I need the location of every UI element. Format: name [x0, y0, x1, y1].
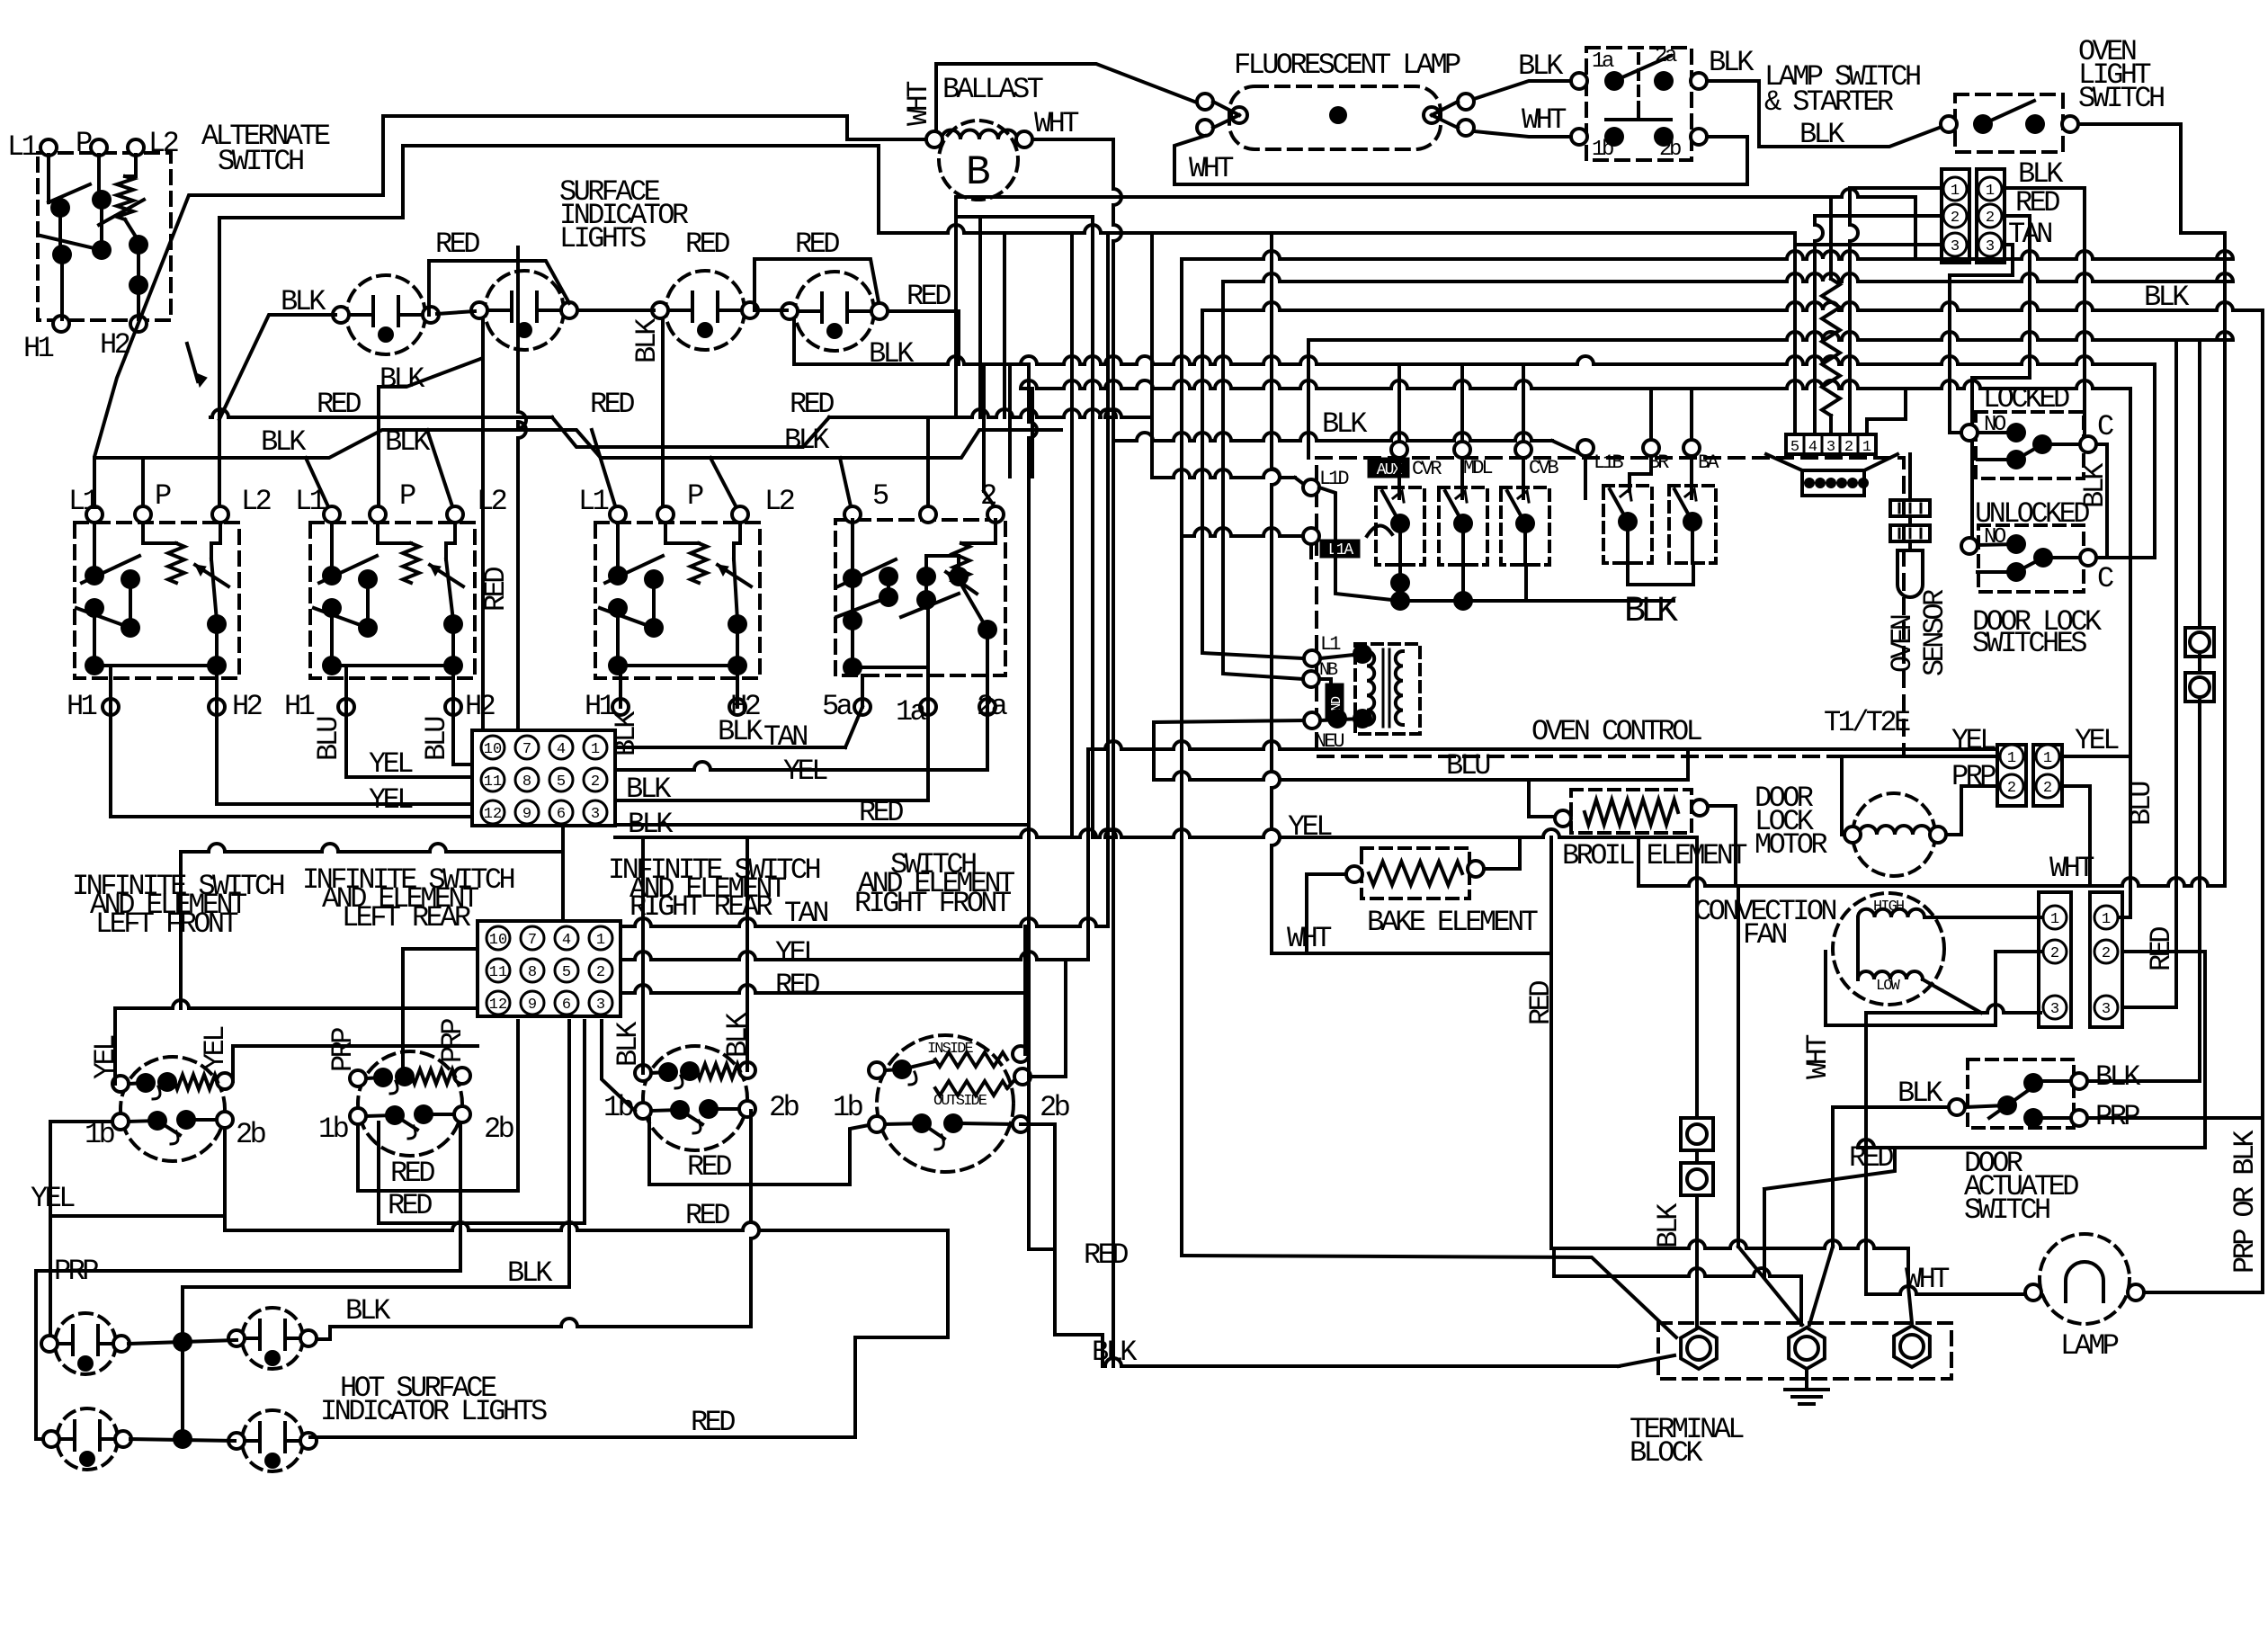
wire WHT to lamp: [1866, 1286, 2025, 1294]
svg-text:RED: RED: [317, 388, 361, 421]
svg-text:RED: RED: [390, 1157, 434, 1190]
svg-text:4: 4: [557, 741, 566, 758]
wire lamp right bottom WHT: [1474, 131, 1571, 137]
svg-text:RED: RED: [790, 388, 834, 421]
svg-text:LEFT REAR: LEFT REAR: [342, 901, 471, 934]
wire broil left: [1529, 780, 1555, 817]
wire PRP line: [36, 1269, 460, 1273]
wire oven light switch out: [2078, 124, 2225, 233]
svg-text:SENSOR: SENSOR: [1918, 589, 1951, 676]
oven sensor connectors: [1890, 500, 1930, 516]
wire das left: [1833, 1105, 1949, 1109]
infinite switch right rear: [643, 1046, 747, 1150]
svg-text:YEL: YEL: [89, 1035, 122, 1079]
transformer dashed box: [1355, 644, 1420, 734]
wires into block1 right: [615, 746, 845, 749]
hot surface indicator light 1: [55, 1313, 116, 1374]
svg-text:BLK: BLK: [1652, 1202, 1685, 1248]
svg-text:YEL: YEL: [1951, 724, 1996, 757]
ground symbol: [1805, 1369, 1808, 1390]
svg-text:3: 3: [2102, 1001, 2111, 1018]
svg-text:11: 11: [489, 964, 507, 981]
svg-text:C: C: [2097, 410, 2113, 443]
oven control dashed box: [1317, 458, 1904, 756]
svg-text:2: 2: [2043, 780, 2052, 797]
switch right front: [877, 1035, 1013, 1172]
lamp switch terminals: [1571, 73, 1587, 89]
svg-text:1a: 1a: [1592, 49, 1614, 74]
svg-text:BLK: BLK: [379, 362, 425, 396]
wire 3pin pin2 left: [1815, 214, 1942, 218]
wire pin2 right RED to unlocked NO: [2005, 214, 2030, 218]
fan low coil: [1858, 971, 1923, 979]
svg-text:BAKE ELEMENT: BAKE ELEMENT: [1367, 906, 1538, 939]
svg-text:MDL: MDL: [1463, 457, 1492, 479]
lamp horseshoe: [2066, 1262, 2103, 1301]
svg-text:& STARTER: & STARTER: [1764, 85, 1894, 119]
svg-text:LAMP: LAMP: [2060, 1329, 2119, 1363]
svg-text:L1: L1: [578, 485, 609, 518]
wire lamp3 left column to P3: [661, 318, 665, 514]
square terminal B: [2185, 673, 2214, 702]
svg-text:3: 3: [596, 997, 605, 1014]
svg-text:6: 6: [562, 997, 571, 1014]
svg-text:12: 12: [484, 806, 502, 823]
wires into block1 left: [111, 707, 472, 817]
wire top route lower: [403, 146, 879, 233]
wire L1D internal: [1319, 487, 1400, 601]
wire block2 row3 RED: [622, 985, 1029, 993]
svg-text:2: 2: [596, 964, 605, 981]
oven sensor bulb: [1897, 550, 1923, 597]
hot lamp junction dots: [173, 1332, 192, 1352]
wire relay feed bus b: [1021, 380, 2130, 389]
wire strip pin1: [1867, 389, 1906, 434]
wire hot row2 right RED line: [310, 1435, 855, 1439]
connector 2pin right: [2033, 745, 2062, 806]
oven control top terminals: [1391, 442, 1407, 458]
svg-text:4: 4: [1808, 439, 1817, 456]
svg-text:RED: RED: [906, 280, 951, 313]
door actuated switch dashed box: [1968, 1059, 2074, 1128]
svg-text:2b: 2b: [1040, 1091, 1070, 1124]
svg-text:RED: RED: [479, 568, 513, 612]
svg-text:H2: H2: [232, 690, 262, 723]
surface indicator light 3: [665, 271, 745, 350]
wire wavy RED to L1D corner: [829, 409, 1152, 417]
svg-text:SWITCHES: SWITCHES: [1972, 627, 2086, 660]
relay MDL: [1439, 487, 1487, 565]
infinite switch left rear: [358, 1051, 462, 1156]
svg-text:2: 2: [1844, 439, 1853, 456]
wire L1A feed: [1182, 528, 1303, 536]
svg-text:WHT: WHT: [1522, 103, 1566, 137]
wire top route upper: [383, 116, 926, 139]
svg-text:3: 3: [1986, 238, 1995, 255]
svg-text:SWITCH: SWITCH: [1964, 1193, 2049, 1227]
svg-text:L2: L2: [764, 485, 794, 518]
svg-text:SWITCH: SWITCH: [218, 145, 303, 178]
wire blu right end up: [1686, 749, 1690, 780]
svg-text:RED: RED: [775, 969, 819, 1002]
wire motor left: [1842, 756, 1997, 835]
svg-text:1: 1: [1951, 183, 1960, 200]
wire YEL long line: [1088, 741, 1997, 749]
svg-text:BLK: BLK: [1518, 49, 1564, 83]
wire BLK col 633: [567, 1021, 571, 1287]
svg-text:MOTOR: MOTOR: [1755, 828, 1827, 862]
svg-text:RED: RED: [687, 1150, 731, 1184]
svg-text:INDICATOR LIGHTS: INDICATOR LIGHTS: [320, 1395, 547, 1428]
surface indicator light 2: [485, 271, 564, 350]
svg-text:2a: 2a: [977, 690, 1008, 723]
wire relay stubs: [1397, 364, 1401, 450]
svg-text:BLK: BLK: [1897, 1077, 1943, 1110]
lamp switch starter dashed box: [1586, 48, 1692, 160]
svg-text:P: P: [687, 479, 703, 513]
connector 3pin left: [1942, 169, 1969, 263]
wire RED wavy bus: [210, 409, 552, 417]
wire lamp2 left drop to P2: [379, 318, 483, 514]
wire RR top left riser: [641, 837, 645, 1073]
svg-text:2b: 2b: [1659, 138, 1681, 162]
wires block2 left: [115, 1000, 478, 1008]
svg-text:10: 10: [484, 741, 502, 758]
bus right vertical V4 PRP OR BLK: [2261, 310, 2264, 1292]
wire fan right pin3 RED: [2122, 1006, 2176, 1009]
svg-text:FLUORESCENT LAMP: FLUORESCENT LAMP: [1234, 49, 1460, 82]
wire RED chain lamp1 to lamp2: [429, 261, 569, 315]
wire lamp2 left long column: [481, 358, 485, 730]
terminal L1 oc: [1304, 650, 1320, 666]
bus B4 left vertical long: [1180, 259, 1183, 1256]
svg-text:H1: H1: [23, 332, 54, 365]
svg-text:WHT: WHT: [1189, 152, 1233, 185]
wire fan high to pin1: [1924, 916, 2040, 919]
terminal L1A: [1303, 528, 1319, 544]
svg-text:2b: 2b: [236, 1118, 266, 1151]
svg-text:BLK: BLK: [1799, 118, 1845, 151]
svg-text:3: 3: [1951, 238, 1960, 255]
label GND boxed: [1326, 684, 1344, 720]
svg-text:YEL: YEL: [775, 936, 819, 970]
wire bake left: [1307, 874, 1346, 953]
wire vlink 203: [181, 1287, 184, 1439]
svg-text:1b: 1b: [318, 1113, 349, 1146]
bus B2 y241: [956, 215, 1093, 219]
unlocked switch dashed box: [1978, 525, 2084, 592]
svg-text:YEL: YEL: [31, 1182, 75, 1215]
hot surface indicator light 4: [242, 1410, 303, 1471]
svg-text:1: 1: [2043, 750, 2052, 767]
svg-text:WHT: WHT: [902, 82, 935, 126]
svg-text:P: P: [155, 479, 171, 513]
wire line2 to post2: [1552, 1248, 1556, 1276]
wire PRP down lamp3: [34, 1271, 38, 1439]
wire lamp right top BLK: [1474, 81, 1579, 99]
svg-text:PRP: PRP: [436, 1019, 469, 1063]
wire RED trunk: [1029, 364, 1037, 1249]
bus B5 y313: [1223, 273, 2233, 282]
svg-text:P: P: [76, 127, 92, 160]
wire hot lamps row2: [130, 1439, 235, 1441]
locked switch dashed box: [1976, 412, 2084, 478]
svg-text:BLK: BLK: [1092, 1336, 1138, 1369]
bus B6 y336: [1202, 302, 2263, 310]
svg-text:2: 2: [1986, 210, 1995, 227]
relay bottoms bus: [1390, 573, 1410, 593]
label AUX boxed: [1368, 458, 1409, 478]
svg-text:1b: 1b: [833, 1091, 863, 1124]
svg-text:6: 6: [557, 806, 566, 823]
wire BLK 1475 line: [330, 1319, 751, 1327]
svg-text:1: 1: [596, 932, 605, 949]
wire lamp right: [2144, 1291, 2263, 1294]
svg-text:5: 5: [557, 773, 566, 791]
wire das right PRP: [2087, 1116, 2263, 1120]
wire sensor links: [1908, 454, 1912, 500]
wire lamp4 left drop: [792, 319, 796, 364]
surface indicator light 4: [795, 272, 874, 351]
lamp switch contacts: [1604, 71, 1624, 91]
wire lamp1-lamp2 link: [437, 311, 475, 314]
svg-text:L1B: L1B: [1594, 451, 1623, 474]
svg-text:BALLAST: BALLAST: [942, 73, 1043, 106]
wire RR 1b left link: [602, 1021, 635, 1111]
fan inner link: [1856, 917, 1860, 979]
wire NEU from BLU: [1154, 720, 1304, 780]
svg-text:BLU: BLU: [312, 718, 345, 761]
wire yel right link: [2062, 755, 2130, 758]
svg-text:LOW: LOW: [1876, 978, 1901, 995]
broil element dashed box: [1571, 790, 1692, 833]
oven sensor plug: [1766, 454, 1897, 470]
svg-text:P: P: [399, 479, 415, 513]
svg-text:BLK: BLK: [507, 1256, 553, 1290]
svg-text:1: 1: [2007, 750, 2016, 767]
svg-text:RED: RED: [388, 1189, 432, 1222]
svg-text:1a: 1a: [896, 695, 927, 729]
wire 3pin pin3 left: [1795, 243, 1942, 246]
svg-text:1: 1: [1986, 183, 1995, 200]
wire lamp1 left BLK diagonal: [219, 315, 335, 419]
wire RR top right riser: [746, 837, 749, 1070]
svg-text:BLK: BLK: [628, 808, 674, 841]
wire RED line to post3: [1551, 1240, 1908, 1248]
unlocked switch contacts: [1961, 538, 1978, 554]
wire fuse column: [1695, 837, 1699, 1118]
bus B4 y288: [1182, 251, 2233, 259]
fan high coil: [1858, 909, 1924, 917]
bake element dashed box: [1362, 848, 1469, 898]
wire bank feeds: [93, 458, 96, 514]
fluorescent lamp dashed tube: [1229, 86, 1441, 149]
surface switch right-front internals: [844, 506, 861, 523]
wire BLK below block1: [615, 829, 1697, 837]
wire block2 row1 TAN: [622, 918, 1108, 926]
transformer primary coil: [1367, 651, 1374, 725]
svg-text:PRP: PRP: [326, 1028, 360, 1072]
fluorescent lamp center dot: [1329, 106, 1347, 124]
svg-text:L1: L1: [68, 485, 99, 518]
oven sensor resistor: [1822, 279, 1840, 416]
wire ballast right down long: [1113, 139, 1121, 1366]
fan connector right: [2090, 892, 2122, 1027]
svg-text:BLK: BLK: [784, 424, 830, 457]
wire lamp switch out BLK: [1707, 81, 1949, 147]
svg-text:2b: 2b: [484, 1113, 514, 1146]
svg-text:2: 2: [980, 479, 996, 513]
wire WHT return line: [1174, 137, 1747, 184]
relay CVB: [1501, 487, 1549, 565]
wire lamp4 right down: [888, 309, 959, 313]
wire ballast left up: [936, 64, 1209, 131]
bus B6 left vertical: [1202, 310, 1303, 658]
svg-text:BLU: BLU: [1446, 749, 1489, 782]
svg-text:9: 9: [522, 806, 531, 823]
svg-text:2a: 2a: [1655, 44, 1677, 68]
square terminal C: [1681, 1118, 1713, 1150]
svg-text:BLK: BLK: [718, 715, 763, 748]
surface switch left-rear box: [310, 523, 475, 678]
oven light switch contacts: [1941, 116, 1957, 132]
wire lamp2 right link: [316, 1327, 330, 1339]
svg-text:OVEN CONTROL: OVEN CONTROL: [1531, 715, 1702, 748]
door lock motor circle: [1853, 793, 1935, 876]
svg-text:BLK: BLK: [2144, 281, 2190, 314]
wire RED trunk staircase: [1029, 1247, 1055, 1251]
alternate switch terminal L2: [128, 139, 144, 156]
svg-text:SWITCH: SWITCH: [2078, 82, 2164, 115]
wire rf top right: [1023, 926, 1027, 1054]
svg-text:5: 5: [872, 479, 888, 513]
surface switch right-front box: [835, 520, 1005, 675]
svg-text:8: 8: [522, 773, 531, 791]
svg-text:LIGHTS: LIGHTS: [559, 222, 646, 255]
svg-text:L1A: L1A: [1328, 541, 1354, 559]
svg-text:RED: RED: [435, 228, 479, 261]
relay AUX: [1376, 487, 1424, 565]
wires relay terminal drops: [1397, 458, 1401, 498]
svg-text:BLK: BLK: [610, 711, 643, 756]
wire YEL riser: [1086, 749, 1090, 960]
wire RED vertical riser lamps to block1: [518, 247, 526, 730]
locked switch contacts: [1961, 425, 1978, 441]
svg-text:WHT: WHT: [1034, 107, 1078, 140]
wire RED chain lamp3 to lamp4: [755, 259, 879, 310]
wire line A RED to post1: [1182, 1256, 1676, 1337]
svg-text:10: 10: [489, 932, 507, 949]
fluorescent lamp right pins: [1458, 94, 1474, 110]
terminal block post 2: [1789, 1328, 1825, 1369]
wire hot lamps row1: [129, 1340, 237, 1344]
svg-text:9: 9: [528, 997, 537, 1014]
svg-text:L2: L2: [241, 485, 271, 518]
door lock motor terminals: [1844, 827, 1861, 843]
wire bake right: [1484, 837, 1520, 869]
bus left verticals: [1070, 233, 1074, 837]
door actuated switch contacts: [1949, 1099, 1965, 1115]
svg-text:5a: 5a: [822, 690, 853, 723]
wire RR bottom right to lamp line: [751, 1111, 759, 1327]
svg-text:1b: 1b: [1592, 138, 1613, 162]
wire pin3 right TAN to locked NO: [1950, 245, 2013, 275]
svg-text:BLK: BLK: [2095, 1060, 2141, 1094]
bus B7 y368: [1308, 332, 2233, 340]
wire BLK 1431 line: [183, 1285, 569, 1289]
wire BLU blu long line: [1154, 772, 1688, 780]
svg-text:RED: RED: [1084, 1238, 1128, 1272]
svg-text:BLK: BLK: [721, 1012, 755, 1058]
svg-text:RED: RED: [1849, 1141, 1893, 1175]
svg-text:2: 2: [2050, 945, 2059, 962]
relay BR: [1603, 486, 1652, 563]
svg-text:BLK: BLK: [1709, 46, 1755, 79]
wire block1 pin6 to block2: [561, 826, 565, 852]
svg-text:WHT: WHT: [1801, 1035, 1835, 1079]
alternate switch terminal H2: [130, 316, 147, 332]
svg-text:FAN: FAN: [1743, 918, 1786, 952]
terminal L1D: [1303, 479, 1319, 496]
svg-text:LEFT FRONT: LEFT FRONT: [95, 907, 237, 941]
wire broil right down: [1708, 806, 1736, 886]
svg-text:H1: H1: [67, 690, 97, 723]
svg-text:RED: RED: [685, 228, 729, 261]
terminal connector block lower: [478, 921, 621, 1016]
svg-text:BROIL ELEMENT: BROIL ELEMENT: [1562, 839, 1746, 872]
svg-text:L2: L2: [148, 127, 178, 160]
svg-text:C: C: [2097, 562, 2113, 595]
wire WHT line y985: [1638, 878, 2225, 886]
svg-text:WHT: WHT: [2049, 852, 2094, 885]
wire fan pin2: [1826, 952, 2040, 1025]
wire fan low diagonal: [1923, 979, 1981, 1013]
svg-text:BLK: BLK: [345, 1294, 391, 1328]
terminal NB: [1303, 671, 1319, 687]
infinite switch left front: [121, 1057, 225, 1161]
svg-text:BLU: BLU: [420, 718, 453, 761]
svg-text:5: 5: [1790, 439, 1799, 456]
svg-text:2b: 2b: [769, 1091, 799, 1124]
svg-text:WHT: WHT: [1905, 1263, 1949, 1296]
svg-text:CVB: CVB: [1529, 457, 1558, 479]
wire BLU down: [2129, 389, 2132, 917]
alternate switch dashed box: [38, 153, 171, 320]
wire 3pin pin1 left: [1850, 186, 1942, 190]
svg-text:3: 3: [1826, 439, 1835, 456]
bus B1 y219: [956, 189, 1915, 197]
svg-text:RED: RED: [795, 228, 839, 261]
lamp dashed circle: [2040, 1234, 2130, 1324]
svg-text:YEL: YEL: [2075, 724, 2119, 757]
surface indicator light 1: [346, 275, 425, 354]
wire WHT line lower: [1272, 952, 1551, 955]
svg-text:YEL: YEL: [1288, 810, 1332, 844]
svg-text:RED: RED: [685, 1199, 729, 1232]
svg-text:BLOCK: BLOCK: [1630, 1436, 1703, 1470]
terminal connector block upper: [472, 730, 615, 826]
svg-text:1: 1: [1862, 439, 1871, 456]
ballast coil: [942, 130, 1017, 140]
broil element terminals: [1555, 810, 1571, 827]
surface switch left-front box: [75, 523, 239, 678]
transformer core bars: [1382, 649, 1385, 727]
square terminal D: [1681, 1163, 1713, 1195]
terminal block dashed box: [1658, 1323, 1951, 1379]
svg-text:BLK: BLK: [385, 425, 431, 459]
svg-text:H1: H1: [284, 690, 315, 723]
wire RED column 1725: [1549, 837, 1553, 1248]
